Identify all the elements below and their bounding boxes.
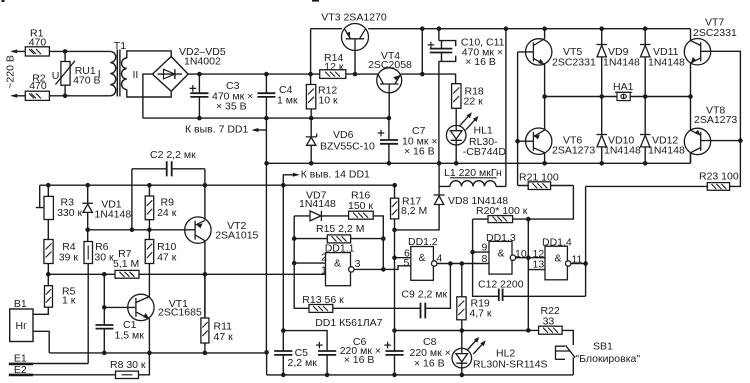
svg-text:R21 100: R21 100 [519, 171, 559, 183]
svg-text:Hг: Hг [16, 320, 28, 332]
svg-text:330 к: 330 к [57, 207, 82, 219]
svg-text:~220 В: ~220 В [5, 55, 17, 89]
svg-text:1N4148: 1N4148 [604, 145, 641, 157]
svg-text:VT3 2SA1270: VT3 2SA1270 [321, 12, 387, 24]
svg-text:BZV55C-10: BZV55C-10 [320, 140, 375, 152]
svg-text:C12 2200: C12 2200 [478, 279, 524, 291]
svg-text:10 к: 10 к [318, 95, 338, 107]
svg-text:E2: E2 [14, 364, 27, 376]
svg-text:1N4148: 1N4148 [603, 57, 640, 69]
svg-text:HL1: HL1 [474, 125, 493, 137]
svg-text:2SA1273: 2SA1273 [694, 114, 737, 126]
svg-text:47 к: 47 к [214, 331, 234, 343]
svg-text:B1: B1 [14, 298, 27, 310]
svg-text:4: 4 [437, 253, 443, 265]
svg-text:11: 11 [572, 254, 583, 266]
svg-text:22 к: 22 к [464, 96, 484, 108]
svg-text:"Блокировка": "Блокировка" [575, 353, 640, 365]
svg-text:470 В: 470 В [73, 75, 100, 87]
svg-text:1N4148: 1N4148 [299, 198, 336, 210]
svg-text:470: 470 [29, 80, 47, 92]
svg-text:2SA1015: 2SA1015 [215, 229, 258, 241]
svg-text:24 к: 24 к [157, 207, 177, 219]
svg-text:10: 10 [515, 248, 527, 260]
svg-text:U: U [52, 70, 60, 82]
svg-text:2SC2331: 2SC2331 [552, 57, 596, 69]
svg-text:VD6: VD6 [333, 129, 354, 141]
svg-text:R8 30 к: R8 30 к [110, 359, 146, 371]
svg-text:DD1.4: DD1.4 [542, 237, 572, 249]
svg-text:R13 56 к: R13 56 к [302, 294, 344, 306]
svg-text:L1 220 мкГн: L1 220 мкГн [444, 167, 502, 179]
svg-text:150 к: 150 к [348, 200, 373, 212]
svg-text:2SC1685: 2SC1685 [158, 307, 202, 319]
svg-text:12 к: 12 к [324, 61, 344, 73]
svg-text:К выв. 7 DD1: К выв. 7 DD1 [185, 123, 248, 135]
svg-text:SB1: SB1 [593, 340, 613, 352]
svg-text:&: & [334, 258, 341, 270]
svg-text:× 16 В: × 16 В [344, 354, 375, 366]
svg-text:C9 2,2 мк: C9 2,2 мк [401, 289, 447, 301]
svg-text:1N4148: 1N4148 [648, 145, 685, 157]
svg-text:470: 470 [29, 37, 47, 49]
svg-text:&: & [498, 248, 505, 260]
svg-text:39 к: 39 к [59, 251, 79, 263]
svg-text:DD1.1: DD1.1 [325, 242, 355, 254]
svg-text:1,5 мк: 1,5 мк [115, 330, 145, 342]
svg-text:I: I [98, 68, 101, 80]
svg-text:&: & [419, 252, 426, 264]
svg-text:R20* 100 к: R20* 100 к [476, 205, 528, 217]
svg-text:1N4002: 1N4002 [184, 55, 221, 67]
svg-text:1N4148: 1N4148 [648, 57, 685, 69]
svg-text:3: 3 [355, 258, 361, 270]
svg-text:2,2 мк: 2,2 мк [288, 357, 318, 369]
svg-text:DD1.2: DD1.2 [408, 236, 438, 248]
svg-text:× 16 В: × 16 В [465, 56, 496, 68]
svg-text:2: 2 [321, 252, 327, 264]
svg-text:1 к: 1 к [62, 294, 76, 306]
svg-text:4,7 к: 4,7 к [469, 308, 492, 320]
svg-text:8,2 М: 8,2 М [401, 205, 427, 217]
svg-text:8: 8 [482, 253, 488, 265]
svg-text:К выв. 14 DD1: К выв. 14 DD1 [301, 169, 370, 181]
svg-text:E1: E1 [14, 353, 27, 365]
svg-text:13: 13 [533, 259, 545, 271]
svg-text:DD1 К561ЛА7: DD1 К561ЛА7 [315, 317, 382, 329]
svg-text:R23 100: R23 100 [699, 170, 739, 182]
svg-text:× 16 В: × 16 В [414, 358, 445, 370]
svg-text:-CB744D: -CB744D [463, 146, 507, 158]
svg-text:RL30N-SR114S: RL30N-SR114S [473, 359, 548, 371]
svg-text:1: 1 [321, 265, 327, 277]
svg-text:II: II [133, 69, 139, 81]
svg-text:47 к: 47 к [157, 251, 177, 263]
svg-text:33: 33 [543, 316, 555, 328]
svg-text:30 к: 30 к [94, 251, 114, 263]
svg-text:HA1: HA1 [613, 81, 634, 93]
svg-text:5: 5 [404, 257, 410, 269]
svg-text:C2 2,2 мк: C2 2,2 мк [150, 149, 196, 161]
svg-text:2SC2058: 2SC2058 [368, 59, 412, 71]
svg-text:1 мк: 1 мк [277, 95, 298, 107]
svg-text:T1: T1 [114, 40, 126, 52]
svg-text:× 35 В: × 35 В [216, 101, 247, 113]
svg-text:2SA1273: 2SA1273 [552, 145, 595, 157]
svg-text:&: & [555, 253, 562, 265]
svg-text:R15 2,2 М: R15 2,2 М [316, 223, 364, 235]
svg-text:9: 9 [482, 242, 488, 254]
svg-text:× 16 В: × 16 В [404, 146, 435, 158]
svg-text:2SC2331: 2SC2331 [693, 27, 737, 39]
svg-text:1N4148: 1N4148 [94, 209, 131, 221]
svg-text:5,1 М: 5,1 М [113, 258, 139, 270]
svg-text:DD1.3: DD1.3 [486, 232, 516, 244]
